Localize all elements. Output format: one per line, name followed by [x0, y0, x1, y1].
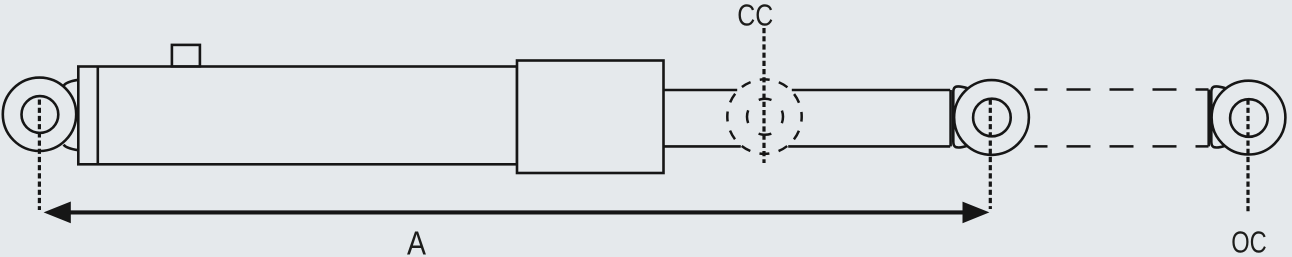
end-cap weld line: [97, 67, 100, 165]
gland / guide block: [517, 61, 664, 174]
CC phantom ball outer dashed circle: [727, 79, 801, 153]
centreline dotted: OC eye: [1246, 100, 1249, 213]
phantom rod end boss (OC eye): [1211, 86, 1225, 147]
dimension A right arrowhead: [963, 202, 990, 224]
svg-text:CC: CC: [737, 0, 773, 32]
piston rod top line (interrupted by CC phantom ball): [664, 89, 738, 92]
dashed extension line bottom (to open-centre eye): [1035, 145, 1209, 148]
centreline dotted: left eye: [38, 100, 41, 211]
cylinder body tube: [78, 67, 517, 165]
right eye bore: [973, 99, 1011, 137]
port block on top of tube: [172, 45, 200, 67]
svg-text:OC: OC: [1231, 225, 1267, 257]
left eye outer ring: [3, 78, 76, 151]
centreline dotted: CC: [762, 28, 765, 163]
centreline dotted: right eye: [989, 100, 992, 210]
phantom rod end face line (OC position): [1207, 90, 1210, 147]
dimension A left arrowhead: [44, 202, 71, 224]
OC eye outer ring: [1212, 81, 1286, 155]
right eye outer ring: [954, 80, 1029, 155]
dimension A shaft: [69, 210, 964, 214]
dashed extension line top (to open-centre eye): [1035, 88, 1209, 91]
fork fillet bottom (body to left eye): [64, 145, 79, 151]
rod end face line: [949, 90, 952, 146]
fork fillet top (body to left eye): [64, 80, 79, 86]
piston rod bottom line (interrupted by CC phantom ball): [664, 145, 741, 148]
rod end boss (right eye): [953, 86, 967, 147]
left eye bore: [22, 96, 59, 133]
svg-text:A: A: [407, 224, 426, 257]
OC eye bore: [1230, 99, 1268, 137]
CC phantom ball inner dashed circle: [747, 99, 783, 135]
